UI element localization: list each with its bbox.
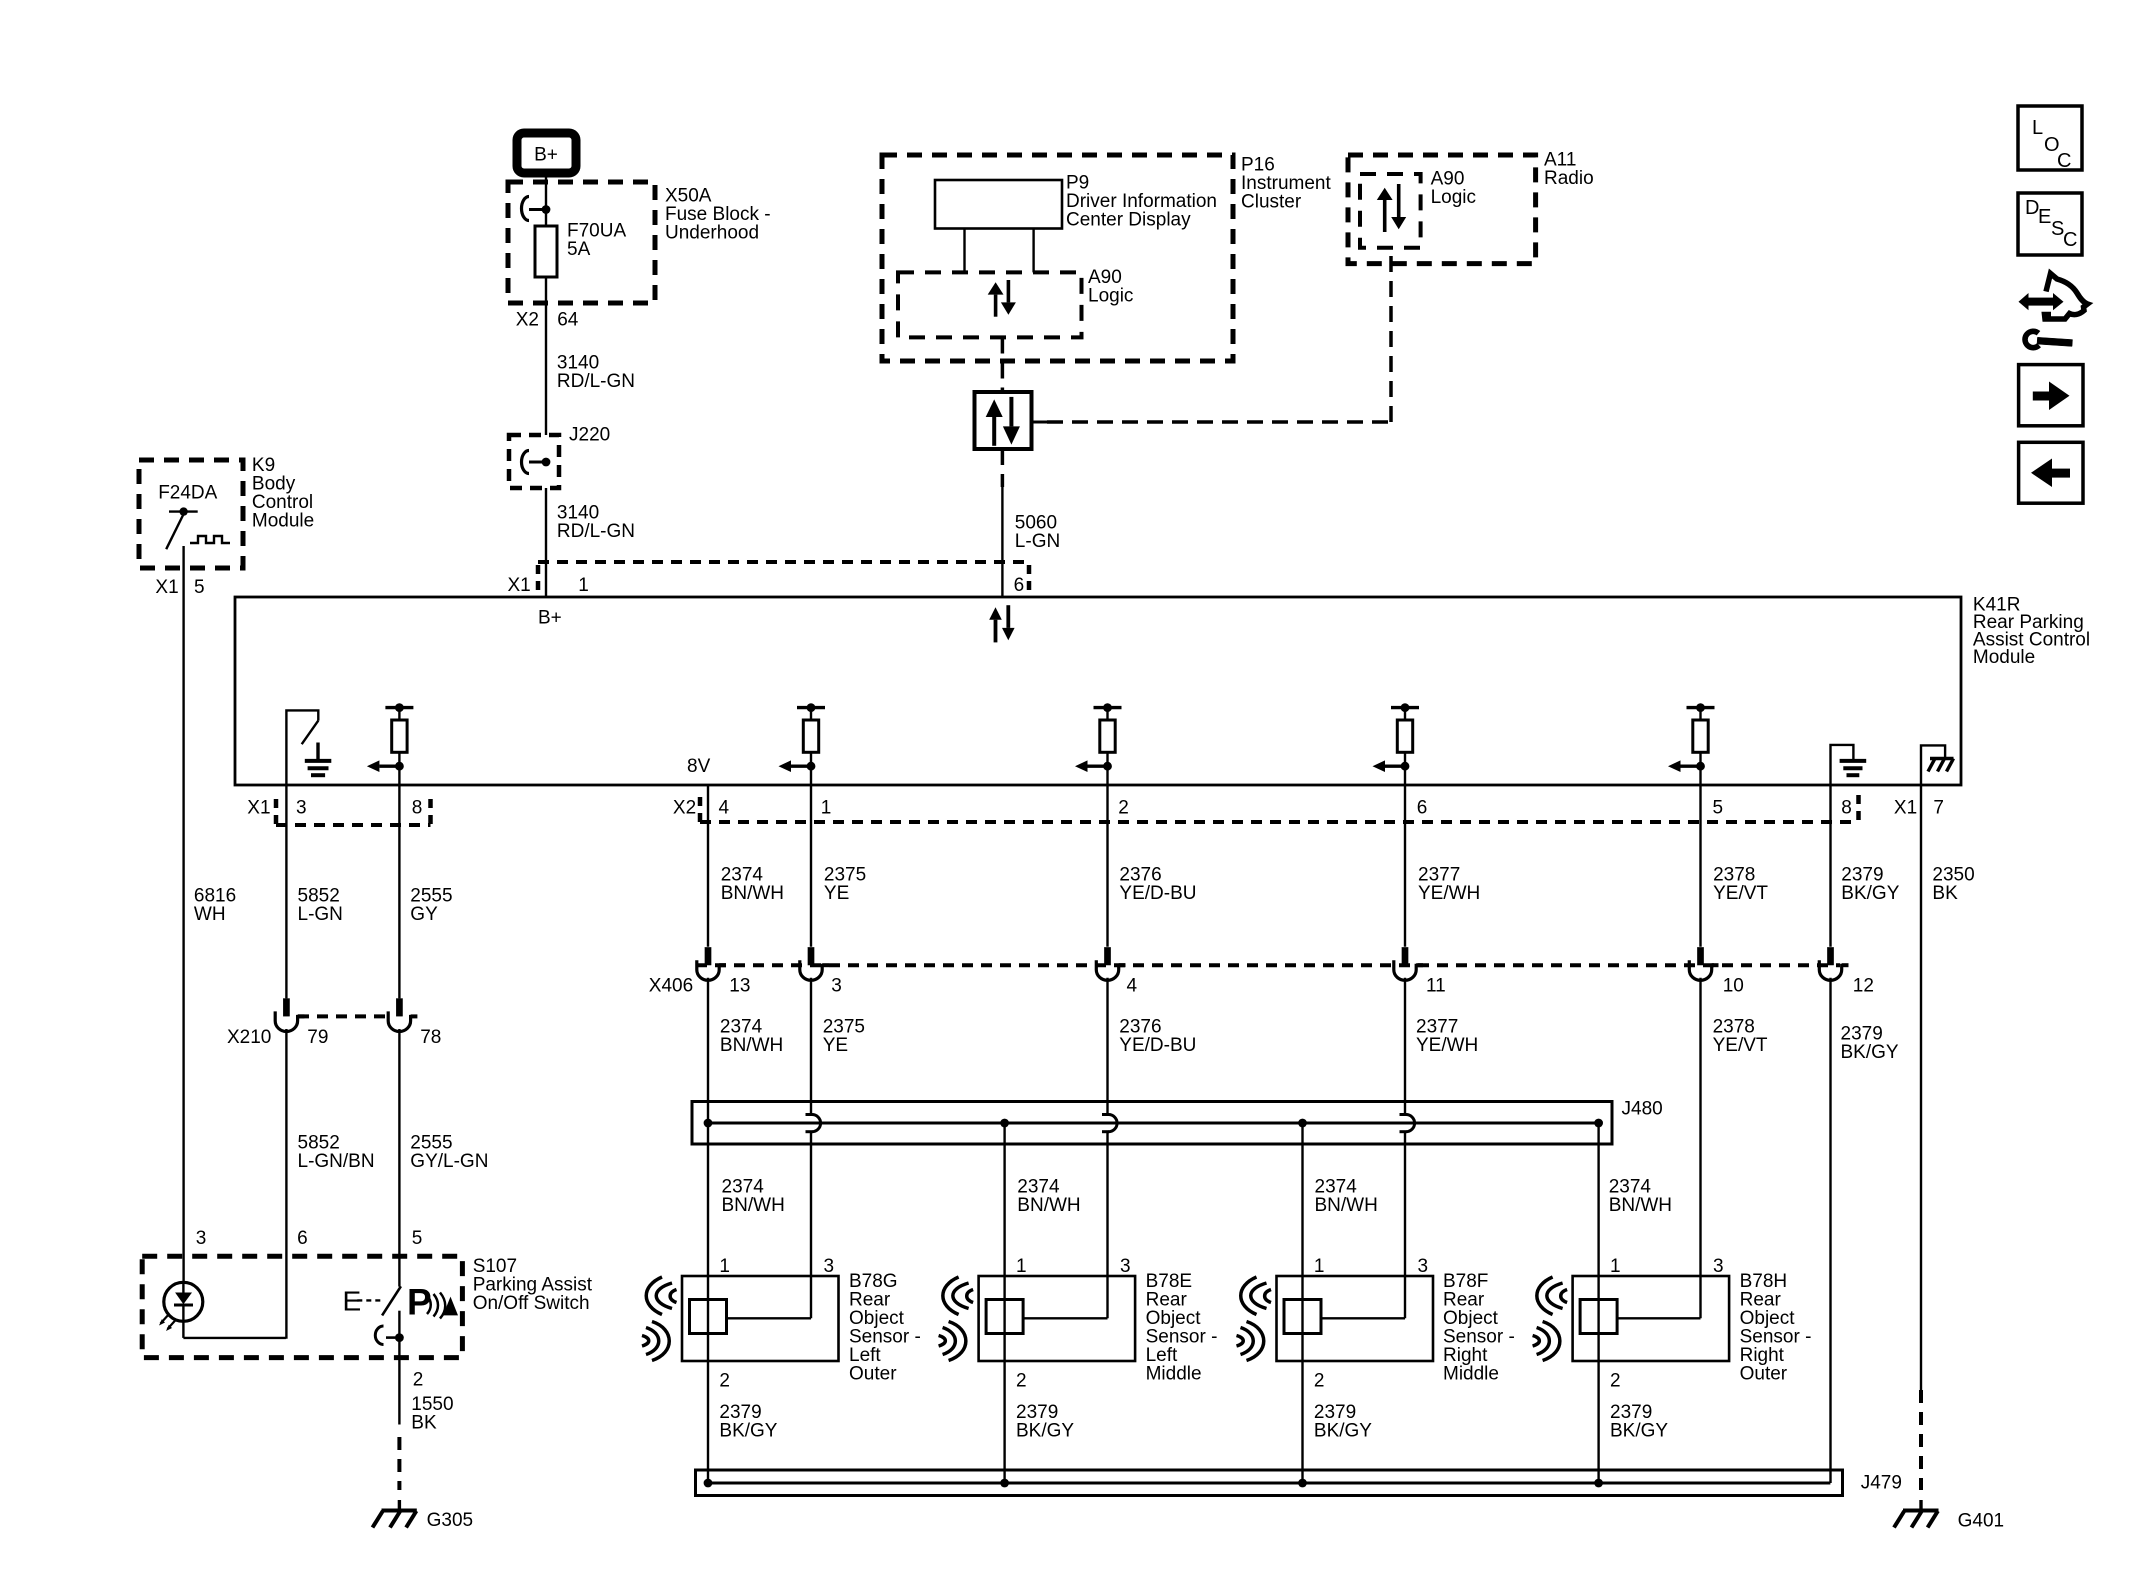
parking assist on/off switch S107 box bbox=[142, 1256, 462, 1357]
wire 2374 BN/WH from pin 4 bbox=[707, 785, 709, 947]
svg-text:E: E bbox=[2038, 206, 2051, 228]
svg-text:1: 1 bbox=[1016, 1256, 1027, 1277]
svg-text:B+: B+ bbox=[538, 608, 562, 629]
svg-text:BN/WH: BN/WH bbox=[1315, 1195, 1378, 1216]
splice pack J479 bbox=[696, 1470, 1843, 1496]
svg-text:6: 6 bbox=[297, 1228, 308, 1249]
svg-text:1: 1 bbox=[1314, 1256, 1325, 1277]
wire 2350 BK from pin 7 bbox=[1920, 785, 1922, 1390]
sonar waves B78H bbox=[1561, 1290, 1567, 1303]
internal resistor R pin1 bbox=[797, 706, 825, 709]
svg-text:2: 2 bbox=[1610, 1370, 1621, 1391]
internal ground at pin 8 X1 bbox=[1831, 745, 1854, 785]
fuse block X50A box bbox=[508, 182, 655, 303]
svg-text:1: 1 bbox=[821, 798, 832, 819]
svg-text:BK/GY: BK/GY bbox=[1610, 1421, 1668, 1442]
serial data arrows in cluster A90 bbox=[994, 295, 998, 317]
svg-text:78: 78 bbox=[420, 1027, 441, 1048]
driver F24DA switch symbol bbox=[169, 510, 198, 512]
splice pack J480 bbox=[692, 1102, 1612, 1145]
wire 1550 BK dashed to ground bbox=[397, 1437, 401, 1490]
svg-text:11: 11 bbox=[1426, 975, 1446, 996]
wire serial data gateway to radio bbox=[1032, 421, 1048, 424]
wire 3140 RD/L-GN upper segment bbox=[545, 277, 547, 435]
svg-text:Logic: Logic bbox=[1088, 286, 1133, 307]
svg-text:Module: Module bbox=[252, 511, 314, 532]
svg-text:C: C bbox=[2063, 229, 2077, 251]
svg-text:4: 4 bbox=[719, 798, 730, 819]
svg-text:RD/L-GN: RD/L-GN bbox=[557, 521, 635, 542]
svg-text:X2: X2 bbox=[673, 798, 696, 819]
svg-text:WH: WH bbox=[194, 904, 226, 925]
connector X406 row bbox=[696, 963, 1840, 967]
radio A11 box bbox=[1348, 155, 1536, 264]
internal ground symbol pin 3 bbox=[305, 759, 332, 763]
svg-text:64: 64 bbox=[557, 310, 579, 331]
svg-text:3: 3 bbox=[1418, 1256, 1429, 1277]
svg-text:8: 8 bbox=[1841, 798, 1852, 819]
icon LOC box bbox=[2018, 106, 2082, 170]
svg-text:6: 6 bbox=[1417, 798, 1428, 819]
junction dot J220 bbox=[542, 458, 551, 467]
wire 2376 YE/D-BU from pin 2 bbox=[1106, 785, 1108, 947]
wire 2379 BK/GY from pin 8 bbox=[1829, 785, 1831, 947]
svg-text:YE/WH: YE/WH bbox=[1416, 1035, 1478, 1056]
svg-text:4: 4 bbox=[1127, 975, 1138, 996]
wire 5060 L-GN bbox=[1001, 487, 1003, 597]
svg-text:3: 3 bbox=[831, 975, 842, 996]
svg-text:3: 3 bbox=[1713, 1256, 1724, 1277]
wire 5852 L-GN from pin 3 bbox=[285, 785, 287, 998]
sonar waves B78E bbox=[967, 1290, 973, 1303]
body control module K9 box bbox=[139, 460, 243, 568]
wire 2377 YE/WH from pin 6 bbox=[1404, 785, 1406, 947]
svg-text:Cluster: Cluster bbox=[1241, 192, 1302, 213]
pulse signal symbol bbox=[190, 536, 230, 543]
rear object sensor B78F bbox=[1277, 1276, 1434, 1361]
LED light arrows bbox=[161, 1314, 170, 1324]
wire P9 leg right bbox=[1032, 229, 1034, 273]
svg-text:Outer: Outer bbox=[849, 1363, 897, 1384]
junction dot B+ node bbox=[542, 205, 551, 214]
sonar waves B78G bbox=[670, 1290, 676, 1303]
svg-text:BK/GY: BK/GY bbox=[1841, 1042, 1899, 1063]
svg-text:5: 5 bbox=[412, 1228, 423, 1249]
serial data gateway symbol bbox=[975, 392, 1032, 449]
splice dots J480 bbox=[704, 1119, 713, 1128]
svg-text:2: 2 bbox=[413, 1370, 424, 1391]
rear object sensor B78H bbox=[1573, 1276, 1730, 1361]
svg-text:10: 10 bbox=[1723, 975, 1744, 996]
icon vehicle outline bbox=[2045, 274, 2088, 320]
icon forward arrow box bbox=[2019, 365, 2083, 426]
svg-text:13: 13 bbox=[729, 975, 750, 996]
connector X210 bbox=[298, 1014, 385, 1018]
driver information center display P9 bbox=[935, 180, 1062, 229]
wire 3140 RD/L-GN lower segment bbox=[545, 488, 547, 597]
svg-text:1: 1 bbox=[1610, 1256, 1621, 1277]
terminal hook in fuse block bbox=[522, 197, 529, 221]
wire LED to pin 6 bbox=[183, 1337, 286, 1339]
svg-text:BN/WH: BN/WH bbox=[721, 883, 784, 904]
svg-text:5A: 5A bbox=[567, 239, 591, 260]
svg-text:2: 2 bbox=[1314, 1370, 1325, 1391]
svg-text:BN/WH: BN/WH bbox=[722, 1195, 785, 1216]
icon wrench bbox=[2025, 331, 2039, 347]
svg-text:X1: X1 bbox=[247, 798, 270, 819]
svg-text:Radio: Radio bbox=[1544, 168, 1594, 189]
connector X2 bracket bottom bbox=[700, 820, 1859, 824]
svg-text:2: 2 bbox=[1118, 798, 1129, 819]
svg-text:BK: BK bbox=[411, 1413, 437, 1434]
fuse F70UA 5A bbox=[535, 226, 557, 277]
svg-text:BK/GY: BK/GY bbox=[1016, 1421, 1074, 1442]
svg-text:BN/WH: BN/WH bbox=[1609, 1195, 1672, 1216]
svg-text:79: 79 bbox=[307, 1027, 328, 1048]
wire hop at J480 bbox=[806, 1113, 813, 1116]
svg-text:Underhood: Underhood bbox=[665, 223, 759, 244]
svg-text:5: 5 bbox=[194, 577, 205, 598]
svg-text:Module: Module bbox=[1973, 647, 2035, 668]
sonar waves B78F bbox=[1265, 1290, 1271, 1303]
wire P9 leg left bbox=[963, 229, 965, 273]
svg-text:YE/WH: YE/WH bbox=[1418, 883, 1480, 904]
svg-text:3: 3 bbox=[196, 1228, 207, 1249]
ground G401 bbox=[1903, 1509, 1939, 1513]
serial data arrows at pin 6 internal bbox=[994, 620, 998, 643]
svg-text:L-GN: L-GN bbox=[298, 904, 343, 925]
internal resistor R pin5 bbox=[1687, 706, 1715, 709]
svg-text:J479: J479 bbox=[1861, 1473, 1902, 1494]
svg-text:Outer: Outer bbox=[1740, 1363, 1788, 1384]
switch contact S107 bbox=[382, 1286, 401, 1315]
svg-text:GY: GY bbox=[410, 904, 438, 925]
svg-text:G401: G401 bbox=[1958, 1511, 2004, 1532]
wire hop at J480 bbox=[1102, 1113, 1109, 1116]
rear parking assist control module K41R bbox=[235, 597, 1961, 785]
wire 2555 GY/L-GN bbox=[398, 1029, 400, 1287]
svg-text:Middle: Middle bbox=[1146, 1363, 1202, 1384]
wire 5852 L-GN/BN bbox=[285, 1029, 287, 1339]
internal switch to ground at pin 3 bbox=[286, 710, 318, 785]
connector X1 bracket top bbox=[538, 560, 1029, 564]
svg-text:Middle: Middle bbox=[1443, 1363, 1499, 1384]
svg-text:Center Display: Center Display bbox=[1066, 210, 1191, 231]
svg-text:BK: BK bbox=[1932, 883, 1958, 904]
svg-text:BN/WH: BN/WH bbox=[1017, 1195, 1080, 1216]
wire 5060 L-GN dashed stub bbox=[1001, 449, 1005, 487]
rear object sensor B78G bbox=[682, 1276, 839, 1361]
wire 2555 GY from pin 8 bbox=[398, 785, 400, 998]
svg-text:BN/WH: BN/WH bbox=[720, 1035, 783, 1056]
svg-text:P: P bbox=[407, 1282, 432, 1323]
svg-text:X406: X406 bbox=[649, 975, 693, 996]
internal chassis ground at pin 7 X1 bbox=[1921, 745, 1945, 785]
svg-text:G305: G305 bbox=[427, 1510, 473, 1531]
svg-text:YE/D-BU: YE/D-BU bbox=[1119, 1035, 1196, 1056]
splice dots J479 bbox=[704, 1479, 713, 1488]
rear object sensor B78E bbox=[979, 1276, 1136, 1361]
svg-text:BK/GY: BK/GY bbox=[1314, 1421, 1372, 1442]
svg-text:1: 1 bbox=[578, 575, 589, 596]
serial data arrows in radio A90 bbox=[1383, 200, 1387, 232]
svg-text:1: 1 bbox=[719, 1256, 730, 1277]
svg-text:3: 3 bbox=[1120, 1256, 1131, 1277]
svg-text:J220: J220 bbox=[569, 425, 610, 446]
logic block A90 in radio bbox=[1360, 174, 1421, 248]
svg-text:X1: X1 bbox=[508, 575, 531, 596]
svg-text:YE/VT: YE/VT bbox=[1713, 1035, 1768, 1056]
internal resistor R pin8 bbox=[385, 706, 413, 709]
wire hop at J480 bbox=[1400, 1113, 1407, 1116]
icon DESC box bbox=[2018, 193, 2082, 255]
svg-text:J480: J480 bbox=[1622, 1099, 1663, 1120]
svg-text:YE/VT: YE/VT bbox=[1713, 883, 1768, 904]
wire 1550 BK bbox=[398, 1338, 400, 1425]
svg-text:5: 5 bbox=[1713, 798, 1724, 819]
svg-text:6: 6 bbox=[1014, 575, 1025, 596]
svg-text:RD/L-GN: RD/L-GN bbox=[557, 371, 635, 392]
svg-text:3: 3 bbox=[824, 1256, 835, 1277]
svg-text:8: 8 bbox=[412, 798, 423, 819]
instrument cluster P16 box bbox=[882, 155, 1233, 361]
internal resistor R pin6 bbox=[1391, 706, 1419, 709]
svg-text:X2: X2 bbox=[516, 310, 539, 331]
svg-text:GY/L-GN: GY/L-GN bbox=[410, 1151, 488, 1172]
wires below X406 bbox=[707, 978, 709, 1483]
svg-text:BK/GY: BK/GY bbox=[719, 1421, 777, 1442]
svg-text:L-GN: L-GN bbox=[1015, 531, 1060, 552]
wire 2378 YE/VT from pin 5 bbox=[1699, 785, 1701, 947]
svg-text:2: 2 bbox=[719, 1370, 730, 1391]
terminal hook in J220 bbox=[522, 451, 529, 474]
svg-text:F24DA: F24DA bbox=[158, 482, 217, 503]
svg-text:YE: YE bbox=[823, 1035, 848, 1056]
wire 2375 YE from pin 1 bbox=[810, 785, 812, 947]
svg-text:2: 2 bbox=[1016, 1370, 1027, 1391]
svg-text:On/Off Switch: On/Off Switch bbox=[473, 1293, 590, 1314]
svg-text:12: 12 bbox=[1853, 975, 1874, 996]
svg-text:X210: X210 bbox=[227, 1027, 271, 1048]
wires J480 to sensors pin 1 bbox=[1003, 1123, 1005, 1483]
svg-text:B+: B+ bbox=[534, 145, 558, 166]
svg-text:X1: X1 bbox=[1894, 798, 1917, 819]
internal resistor R pin2 bbox=[1094, 706, 1122, 709]
wire B+ to fuse bbox=[545, 175, 547, 226]
svg-text:7: 7 bbox=[1933, 798, 1944, 819]
svg-text:BK/GY: BK/GY bbox=[1841, 883, 1899, 904]
logic block A90 in cluster bbox=[898, 272, 1082, 337]
ground G305 bbox=[382, 1509, 417, 1513]
wire serial data cluster to gateway bbox=[1001, 338, 1005, 393]
connector X1 bracket bottom left bbox=[276, 823, 431, 827]
battery terminal B+ bbox=[517, 133, 576, 173]
svg-text:YE: YE bbox=[824, 883, 849, 904]
svg-text:X1: X1 bbox=[155, 577, 178, 598]
svg-text:C: C bbox=[2057, 150, 2071, 172]
svg-text:3: 3 bbox=[296, 798, 307, 819]
svg-text:Logic: Logic bbox=[1431, 187, 1476, 208]
svg-text:YE/D-BU: YE/D-BU bbox=[1119, 883, 1196, 904]
wire 6816 WH bbox=[182, 546, 184, 1283]
svg-text:8V: 8V bbox=[687, 756, 711, 777]
splice J220 box bbox=[509, 435, 559, 488]
svg-text:L-GN/BN: L-GN/BN bbox=[298, 1151, 375, 1172]
icon back arrow box bbox=[2019, 442, 2083, 503]
wire 2350 BK dashed to ground bbox=[1919, 1390, 1923, 1490]
indicator LED in S107 bbox=[164, 1282, 203, 1321]
icon vehicle data double arrow bbox=[2027, 298, 2055, 306]
svg-text:L: L bbox=[2032, 117, 2043, 139]
